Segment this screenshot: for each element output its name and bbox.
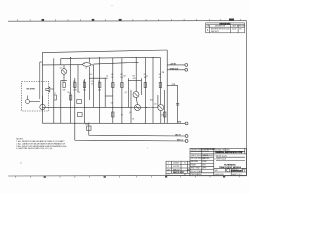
svg-text:R. SMITH 10-6-81: R. SMITH 10-6-81 [215,159,227,161]
svg-text:R3: R3 [83,81,85,83]
svg-text:4007734: 4007734 [173,166,179,168]
svg-text:TONE OUTPUT MODULE: TONE OUTPUT MODULE [219,167,242,169]
svg-text:R9: R9 [124,76,126,78]
svg-text:R4: R4 [98,81,100,83]
svg-text:C11: C11 [85,124,88,126]
svg-text:4. LAST REF DESIG USED: R10, C: 4. LAST REF DESIG USED: R10, C12, Q4. [16,147,53,150]
svg-text:Q1: Q1 [60,68,62,70]
svg-text:PARTS LIST: PARTS LIST [173,171,185,174]
svg-text:MIC LO: MIC LO [177,139,184,141]
svg-text:R4: R4 [78,92,80,94]
svg-text:DESCRIPTION: DESCRIPTION [215,26,225,28]
svg-text:REVISED PER ECN 1042: REVISED PER ECN 1042 [211,29,230,31]
svg-text:DES: DES [187,169,190,171]
svg-text:10: 10 [159,77,161,79]
svg-text:+12V IN: +12V IN [170,63,177,65]
svg-text:FINISH: FINISH [191,164,196,166]
svg-text:C1: C1 [184,163,186,165]
svg-text:C3: C3 [90,74,92,76]
svg-text:C4: C4 [106,76,108,78]
svg-text:QTY: QTY [167,169,170,171]
svg-text:C1: C1 [54,93,56,95]
svg-text:REV: REV [243,169,246,171]
svg-text:CHECKED: CHECKED [203,158,210,160]
svg-text:4009921: 4009921 [173,163,179,165]
svg-text:C12: C12 [172,84,175,86]
svg-text:T1: T1 [83,63,85,65]
svg-text:PT: PT [168,174,170,176]
svg-text:R1: R1 [63,81,65,83]
svg-text:C6: C6 [111,103,113,105]
svg-text:63D905107: 63D905107 [231,170,243,172]
svg-text:ENGR: ENGR [203,161,207,163]
svg-text:.05: .05 [91,84,93,86]
svg-text:SEE SHT 1: SEE SHT 1 [211,31,219,33]
svg-text:MIC HI: MIC HI [175,134,181,136]
svg-text:C8: C8 [132,119,134,121]
svg-text:C10: C10 [161,115,164,117]
svg-text:REVISIONS: REVISIONS [220,24,232,26]
svg-text:R2: R2 [73,81,75,83]
svg-text:GENERAL AEROSPACE CORP: GENERAL AEROSPACE CORP [215,151,243,154]
svg-text:J. MILLER 10-4-81: J. MILLER 10-4-81 [215,155,227,157]
svg-text:C5: C5 [146,76,148,78]
svg-text:Q4: Q4 [154,104,156,106]
svg-text:SHEET 1 OF 1: SHEET 1 OF 1 [232,174,242,176]
svg-text:Q2: Q2 [125,92,127,94]
svg-text:C7: C7 [121,115,123,117]
svg-text:.05: .05 [67,92,69,94]
svg-text:SPKR OUT: SPKR OUT [170,68,180,70]
svg-text:MIC SPKR: MIC SPKR [27,89,36,91]
svg-text:3-4-82: 3-4-82 [232,29,237,31]
svg-text:R10: R10 [150,100,153,102]
svg-text:Q3: Q3 [129,112,131,114]
svg-text:L1: L1 [85,68,87,70]
svg-text:C9: C9 [162,72,164,74]
